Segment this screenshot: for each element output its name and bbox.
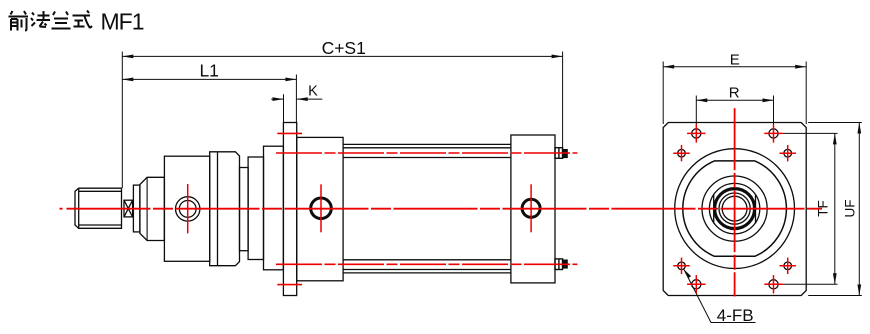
svg-text:C+S1: C+S1 <box>322 38 366 58</box>
tie rod hole bottom-left <box>678 262 686 270</box>
flange bolt tick top <box>277 132 302 134</box>
flange bolt hole top-left <box>692 129 701 138</box>
dimension UF <box>808 123 862 296</box>
tie rod centerline top <box>276 152 577 154</box>
tie rod nut bottom <box>555 259 567 270</box>
dimension TF <box>783 133 838 284</box>
title 法 <box>31 11 50 27</box>
svg-text:R: R <box>729 85 740 102</box>
cylinder tube and tie rod lines <box>343 144 511 273</box>
gland collar <box>140 177 165 240</box>
svg-text:4-FB: 4-FB <box>717 306 754 325</box>
tie rod nut top <box>555 148 567 159</box>
end view flange plate <box>663 123 806 296</box>
main horizontal centerline <box>60 208 823 210</box>
tie rod hole top-left <box>678 149 686 157</box>
tie rod hole bottom-right <box>784 262 792 270</box>
dimension L1 <box>122 75 296 123</box>
rod inner circle <box>722 196 747 221</box>
boss circle r32 <box>702 176 767 241</box>
tie rod hole top-right <box>784 149 792 157</box>
flange bolt hole top-right <box>769 129 778 138</box>
front port crosshair <box>320 184 322 232</box>
svg-text:L1: L1 <box>199 60 218 80</box>
gland circle outer <box>176 197 200 221</box>
flange bolt hole bottom-right <box>769 280 778 289</box>
front cover <box>264 146 284 270</box>
svg-text:MF1: MF1 <box>101 9 144 35</box>
neck ring <box>240 168 249 251</box>
front port circle <box>311 198 332 219</box>
boss circle r25 <box>709 183 759 233</box>
rod thread circle thick <box>715 189 755 229</box>
piston rod thread end <box>75 188 122 228</box>
rear cylinder head <box>511 135 555 283</box>
rod lock nut (bowtie symbol) <box>124 200 133 217</box>
spacer disk <box>133 185 140 232</box>
rod circle <box>719 193 750 224</box>
crosshair flange hole TL <box>687 124 705 142</box>
dimension K <box>271 94 322 122</box>
crosshair tie rod TR <box>780 145 796 161</box>
crosshair flange hole BR <box>764 275 782 293</box>
dimension E <box>663 62 806 125</box>
svg-text:E: E <box>730 51 740 68</box>
pilot circle large <box>675 149 795 269</box>
svg-text:UF: UF <box>842 200 857 218</box>
crosshair tie rod TL <box>673 145 689 161</box>
collar ring 2 <box>248 157 263 260</box>
crosshair flange hole TR <box>764 124 782 142</box>
gland circle inner <box>179 201 196 218</box>
crosshair flange hole BL <box>687 275 705 293</box>
tie rod centerline bottom <box>276 263 577 265</box>
gland circle crosshair <box>187 184 189 233</box>
end view vertical centerline <box>734 108 736 296</box>
body circle with flats <box>683 161 787 256</box>
crosshair tie rod BL <box>673 258 689 274</box>
rear port circle <box>522 199 540 217</box>
title 式 <box>73 11 93 29</box>
dimension C+S1 <box>122 52 562 189</box>
title 兰 <box>52 12 71 29</box>
front flange plate (side) <box>283 123 296 296</box>
front cylinder head <box>297 137 343 280</box>
dimension R <box>696 96 773 125</box>
rear port crosshair <box>530 184 532 232</box>
front gland block <box>164 156 209 261</box>
boss side flats <box>714 194 756 223</box>
label 4-FB leader <box>684 270 756 323</box>
title 前 <box>9 11 29 31</box>
crosshair tie rod BR <box>780 258 796 274</box>
head plate and step block <box>210 152 240 266</box>
flange bolt tick bottom <box>277 284 302 286</box>
svg-text:K: K <box>308 84 318 100</box>
flange bolt hole bottom-left <box>692 280 701 289</box>
